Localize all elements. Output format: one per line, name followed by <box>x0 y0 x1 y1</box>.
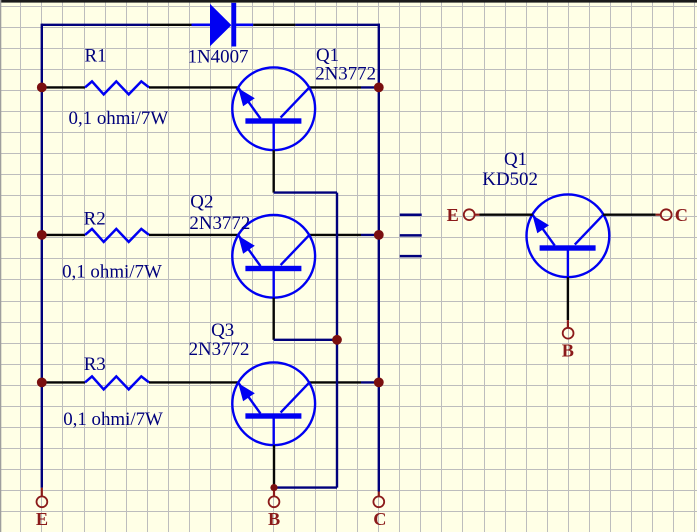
wire Q2 base to bus <box>274 339 337 341</box>
wire Q2 base stub <box>273 298 275 340</box>
svg-text:R1: R1 <box>85 45 107 66</box>
wire Q1 collector black <box>309 86 361 88</box>
wire Q2 collector navy to C bus <box>361 234 379 236</box>
terminal B circle KD502 <box>563 328 574 339</box>
terminal B circle <box>269 496 280 507</box>
svg-text:E: E <box>447 205 459 225</box>
svg-text:2N3772: 2N3772 <box>189 339 250 360</box>
svg-text:2N3772: 2N3772 <box>315 64 376 85</box>
wire top black left (diode pin) <box>150 24 192 26</box>
wire left bus E <box>41 24 43 488</box>
wire B terminal maroon stub <box>273 488 275 497</box>
terminal E circle KD502 <box>464 209 475 220</box>
stub wire 1 <box>400 213 422 216</box>
junction dot row1 left <box>37 83 47 93</box>
KD502 wire E terminal to emitter <box>475 214 480 216</box>
svg-text:1N4007: 1N4007 <box>188 46 249 67</box>
row 1: wire from E bus to R1 <box>42 86 85 88</box>
transistor Q3 2N3772 <box>232 362 315 445</box>
svg-text:R2: R2 <box>84 209 106 230</box>
terminal E circle <box>37 496 48 507</box>
junction dot row2 right <box>374 230 384 240</box>
wire R3 to Q3 emitter <box>149 381 238 383</box>
wire Q1 collector navy to C bus <box>361 86 379 88</box>
svg-text:0,1 ohmi/7W: 0,1 ohmi/7W <box>63 409 163 430</box>
svg-text:B: B <box>268 509 280 529</box>
wire Q1 base stub <box>273 150 275 192</box>
wire Q2 collector black <box>309 234 361 236</box>
svg-text:Q3: Q3 <box>211 320 234 341</box>
wire Q3 base stub to B <box>273 445 275 487</box>
terminal C circle <box>373 496 384 507</box>
svg-text:0,1 ohmi/7W: 0,1 ohmi/7W <box>62 262 162 283</box>
wire left bus maroon stub <box>41 488 43 497</box>
junction dot row1 right <box>374 83 384 93</box>
svg-text:E: E <box>36 509 48 529</box>
transistor Q1 2N3772 <box>232 67 315 150</box>
wire base bus bottom horizontal <box>274 486 337 488</box>
wire base bus horizontal top <box>274 191 337 193</box>
junction dot row2 left <box>37 230 47 240</box>
wire Q3 collector navy to C bus <box>361 381 379 383</box>
wire top black right (diode pin) <box>253 24 295 26</box>
diode D1 cathode bar <box>231 3 236 47</box>
transistor Q2 2N3772 <box>232 215 315 298</box>
wire R2 to Q2 emitter <box>149 234 238 236</box>
svg-text:Q2: Q2 <box>190 192 213 213</box>
wire R1 to Q1 emitter <box>149 86 238 88</box>
row 2: wire from E bus to R2 <box>42 234 85 236</box>
row 3: wire from E bus to R3 <box>42 381 85 383</box>
wire base bus vertical <box>336 193 338 488</box>
svg-text:B: B <box>562 341 574 361</box>
terminal C circle KD502 <box>661 209 672 220</box>
stub wire 2 <box>400 234 422 237</box>
svg-text:0,1 ohmi/7W: 0,1 ohmi/7W <box>69 108 169 129</box>
wire Q3 collector black <box>309 381 361 383</box>
resistor R1 <box>85 81 149 94</box>
diode D1 anode lead <box>192 23 211 26</box>
junction dot B node <box>270 484 277 491</box>
KD502 wire collector to C terminal <box>603 213 656 215</box>
svg-text:C: C <box>675 205 688 225</box>
resistor R3 <box>85 376 149 389</box>
wire right bus maroon stub <box>378 492 380 497</box>
resistor R2 <box>85 229 149 242</box>
transistor Q1 KD502 <box>527 194 610 277</box>
svg-text:2N3772: 2N3772 <box>189 213 250 234</box>
diode D1 1N4007 triangle <box>210 4 231 46</box>
svg-text:R3: R3 <box>84 354 106 375</box>
svg-text:Q1: Q1 <box>504 149 527 170</box>
KD502 wire base to B terminal <box>567 277 569 320</box>
svg-text:C: C <box>373 509 386 529</box>
wire right bus C <box>378 24 380 492</box>
junction dot row3 left <box>37 378 47 388</box>
junction dot row3 right <box>374 378 384 388</box>
diode D1 cathode lead <box>236 23 254 26</box>
svg-text:KD502: KD502 <box>482 169 538 190</box>
wire top navy left <box>42 24 150 26</box>
stub wire 3 <box>400 255 422 258</box>
wire top navy right <box>295 24 380 26</box>
junction dot Q2 base bus <box>332 335 342 345</box>
